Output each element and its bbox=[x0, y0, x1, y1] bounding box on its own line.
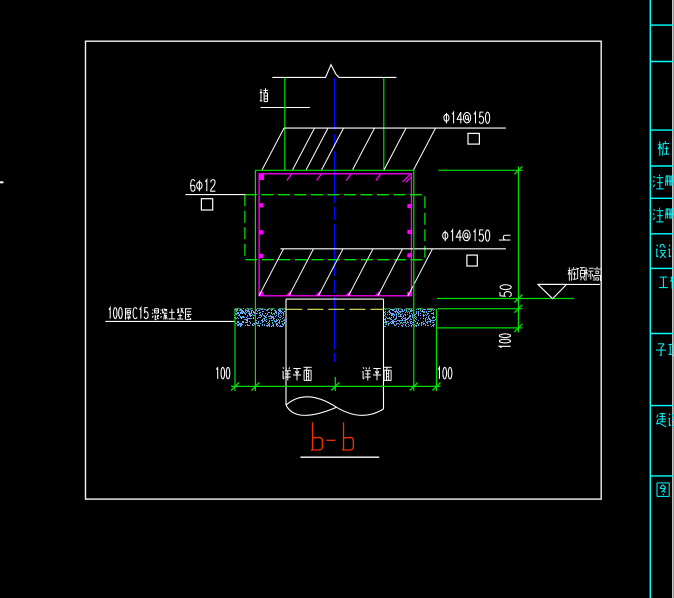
cushion hatch right bbox=[383, 308, 436, 327]
bottom rebar hook bars bbox=[259, 249, 433, 296]
cage left side bars bbox=[259, 203, 263, 258]
dim text 详平面 left bbox=[282, 367, 311, 380]
title block cell 图 bbox=[657, 483, 669, 497]
dim tick cushion bottom bbox=[514, 324, 522, 332]
label 6Φ12 leader bbox=[185, 194, 245, 196]
bottom dim tick 3 bbox=[331, 383, 339, 391]
cushion top edge hint left bbox=[235, 308, 286, 310]
title block cell 注册 1 bbox=[653, 175, 674, 189]
section title b-b bbox=[311, 422, 323, 450]
dim tick cushion top bbox=[514, 305, 522, 313]
title block cell 设计 bbox=[656, 244, 674, 258]
wall label leader bbox=[261, 107, 310, 109]
wall break line bbox=[272, 65, 396, 78]
dim tick cap top bbox=[514, 166, 522, 174]
cap right edge + dim ext bbox=[413, 170, 415, 391]
cushion label leader bbox=[105, 320, 235, 322]
dim ext center bbox=[334, 377, 336, 391]
top bar label Φ14@150 bbox=[444, 112, 490, 123]
title block cell 工程 bbox=[659, 276, 674, 289]
dim line vertical h/50/100 bbox=[517, 167, 519, 333]
bottom dim line bbox=[231, 385, 441, 387]
pile right edge bbox=[383, 299, 385, 409]
bottom rebar leader line bbox=[281, 248, 506, 250]
bottom dim tick 4 bbox=[410, 383, 418, 391]
dim extension cushion top bbox=[438, 308, 523, 310]
title block vertical line bbox=[649, 0, 651, 598]
bottom dim tick 1 bbox=[231, 383, 239, 391]
dim text 100 bbox=[499, 334, 510, 348]
drawing frame bbox=[86, 41, 602, 499]
pile break curve bbox=[286, 397, 384, 416]
wall left edge bbox=[284, 77, 286, 170]
wall right edge bbox=[383, 77, 385, 170]
dim extension pile top bbox=[437, 298, 574, 300]
dim text h bbox=[499, 235, 511, 240]
top rebar leader line bbox=[284, 127, 506, 129]
cap rebar cage bbox=[259, 174, 411, 296]
dim ext left cushion bbox=[234, 309, 236, 391]
title block cell 建设 bbox=[657, 413, 674, 427]
bottom dim tick 2 bbox=[251, 383, 259, 391]
dim text 50 bbox=[500, 285, 511, 297]
cage bottom-right corner bar bbox=[407, 292, 411, 296]
dim extension cushion bottom bbox=[438, 327, 523, 329]
bottom bar label Φ14@150 bbox=[443, 230, 490, 241]
cushion hidden edge (yellow dashed) bbox=[286, 308, 383, 310]
cushion label 混凝土垫层 bbox=[152, 308, 191, 319]
cushion top edge hint right bbox=[384, 308, 437, 310]
cage top-right corner tick bbox=[403, 174, 411, 182]
section title underline bbox=[300, 456, 379, 458]
cushion label 100厚C15 bbox=[109, 308, 122, 319]
title block cell 桩 bbox=[658, 141, 669, 156]
cage right side bars bbox=[407, 204, 411, 257]
bottom bar symbol square bbox=[467, 255, 477, 266]
top bar symbol square bbox=[468, 133, 479, 144]
cap top outline bbox=[255, 169, 413, 171]
cage top bar ticks bbox=[287, 175, 381, 181]
dim ext right cushion bbox=[436, 309, 438, 391]
title block row lines bbox=[650, 25, 673, 476]
dim extension cap top bbox=[439, 169, 523, 171]
label 6Φ12 symbol square bbox=[201, 199, 212, 210]
left screen edge tick bbox=[0, 181, 3, 183]
top rebar hook bars bbox=[262, 128, 436, 170]
elevation label 桩顶标高 bbox=[568, 267, 601, 281]
dim text 详平面 right bbox=[362, 367, 391, 380]
pile left edge bbox=[285, 299, 287, 405]
stirrup zone dashed rect bbox=[245, 195, 425, 260]
label 6Φ12 bbox=[191, 180, 216, 192]
dim text 100 right bbox=[438, 367, 452, 379]
cap left edge + dim ext bbox=[254, 170, 256, 391]
wall label 墙 bbox=[260, 88, 268, 101]
title block cell 子项 bbox=[656, 343, 674, 356]
elevation triangle bbox=[538, 284, 567, 298]
cage bottom bar hooks bbox=[285, 291, 380, 296]
title block outer white line bbox=[672, 0, 674, 598]
title block cell 注册 2 bbox=[653, 208, 674, 222]
dim text 100 left bbox=[216, 367, 229, 379]
cage bottom-left corner bar bbox=[259, 292, 263, 296]
cage top-left corner bar bbox=[259, 174, 264, 180]
pile top line bbox=[286, 298, 384, 300]
elevation leader bbox=[538, 283, 600, 285]
bottom dim tick 5 bbox=[433, 383, 441, 391]
dim tick pile top bbox=[514, 295, 522, 303]
centerline bbox=[334, 78, 336, 362]
cushion hatch left bbox=[234, 308, 285, 327]
